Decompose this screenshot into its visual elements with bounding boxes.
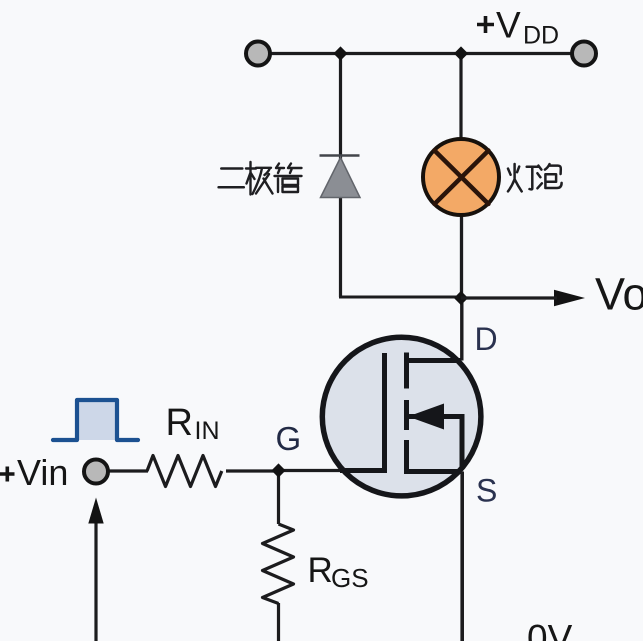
- diode D1 cathode bar: [320, 154, 360, 157]
- node dot output Vo: [454, 291, 468, 305]
- pulse waveform trace: [53, 400, 138, 440]
- svg-text:R: R: [166, 402, 193, 444]
- label +Vin plus sign: [0, 467, 15, 482]
- node dot rail-lamp: [454, 46, 468, 60]
- wire diode branch vertical: [339, 54, 342, 298]
- wire top power rail: [258, 52, 584, 55]
- MOSFET channel segment middle: [404, 400, 409, 430]
- arrow Vo line: [461, 296, 557, 299]
- wire Vin terminal to RIN: [108, 469, 148, 472]
- svg-text:GS: GS: [331, 563, 369, 593]
- svg-text:DD: DD: [523, 22, 559, 50]
- svg-text:IN: IN: [195, 417, 220, 445]
- resistor RIN zigzag: [147, 456, 222, 487]
- label diode chinese char ji: [246, 162, 273, 195]
- terminal Vin: [84, 460, 108, 484]
- wire gate lead inner: [340, 468, 385, 473]
- wire RIN to gate node: [226, 469, 279, 472]
- wire diode branch to output node: [339, 296, 461, 299]
- wire lamp to output node: [460, 212, 463, 298]
- node dot rail-diode: [333, 46, 347, 60]
- wire gate lead: [279, 469, 342, 472]
- lamp L1 cross: [435, 151, 489, 205]
- pulse waveform fill: [77, 400, 117, 440]
- MOSFET source bar: [404, 469, 461, 474]
- svg-text:Vo: Vo: [595, 269, 643, 320]
- terminal top-left: [246, 42, 270, 66]
- lamp L1 circle: [423, 139, 499, 215]
- wire drain lead: [460, 298, 463, 361]
- resistor RGS zigzag: [263, 524, 294, 604]
- svg-text:V: V: [496, 5, 521, 46]
- svg-text:Vin: Vin: [17, 452, 68, 493]
- MOSFET drain bar: [404, 358, 461, 363]
- label diode chinese char er: [219, 169, 244, 188]
- svg-text:S: S: [476, 473, 497, 509]
- wire RGS to bottom: [277, 603, 280, 641]
- diode D1 triangle: [321, 158, 361, 198]
- svg-text:R: R: [308, 551, 333, 590]
- label +VDD plus sign: [477, 16, 494, 33]
- node dot gate: [271, 463, 285, 477]
- label lamp chinese char deng: [508, 164, 538, 191]
- arrow Vin-up head: [88, 498, 103, 524]
- label diode chinese char guan: [275, 164, 302, 193]
- transistor Q1 body circle (N-MOSFET): [322, 337, 481, 496]
- svg-text:0V: 0V: [527, 618, 573, 641]
- svg-text:G: G: [276, 420, 302, 457]
- MOSFET body connection L: [407, 417, 463, 470]
- MOSFET gate bar: [382, 353, 387, 473]
- arrow Vo head: [554, 290, 585, 307]
- wire lamp branch upper: [459, 54, 462, 146]
- terminal top-right: [572, 42, 596, 66]
- MOSFET channel segment bottom: [404, 440, 409, 473]
- wire source lead: [460, 472, 464, 641]
- wire gate node down to RGS: [277, 471, 280, 524]
- MOSFET channel segment top: [404, 353, 409, 389]
- MOSFET body arrow: [408, 404, 444, 430]
- svg-text:D: D: [475, 321, 498, 357]
- wire Vin up-arrow shaft: [94, 522, 97, 641]
- label lamp chinese char pao: [537, 164, 561, 188]
